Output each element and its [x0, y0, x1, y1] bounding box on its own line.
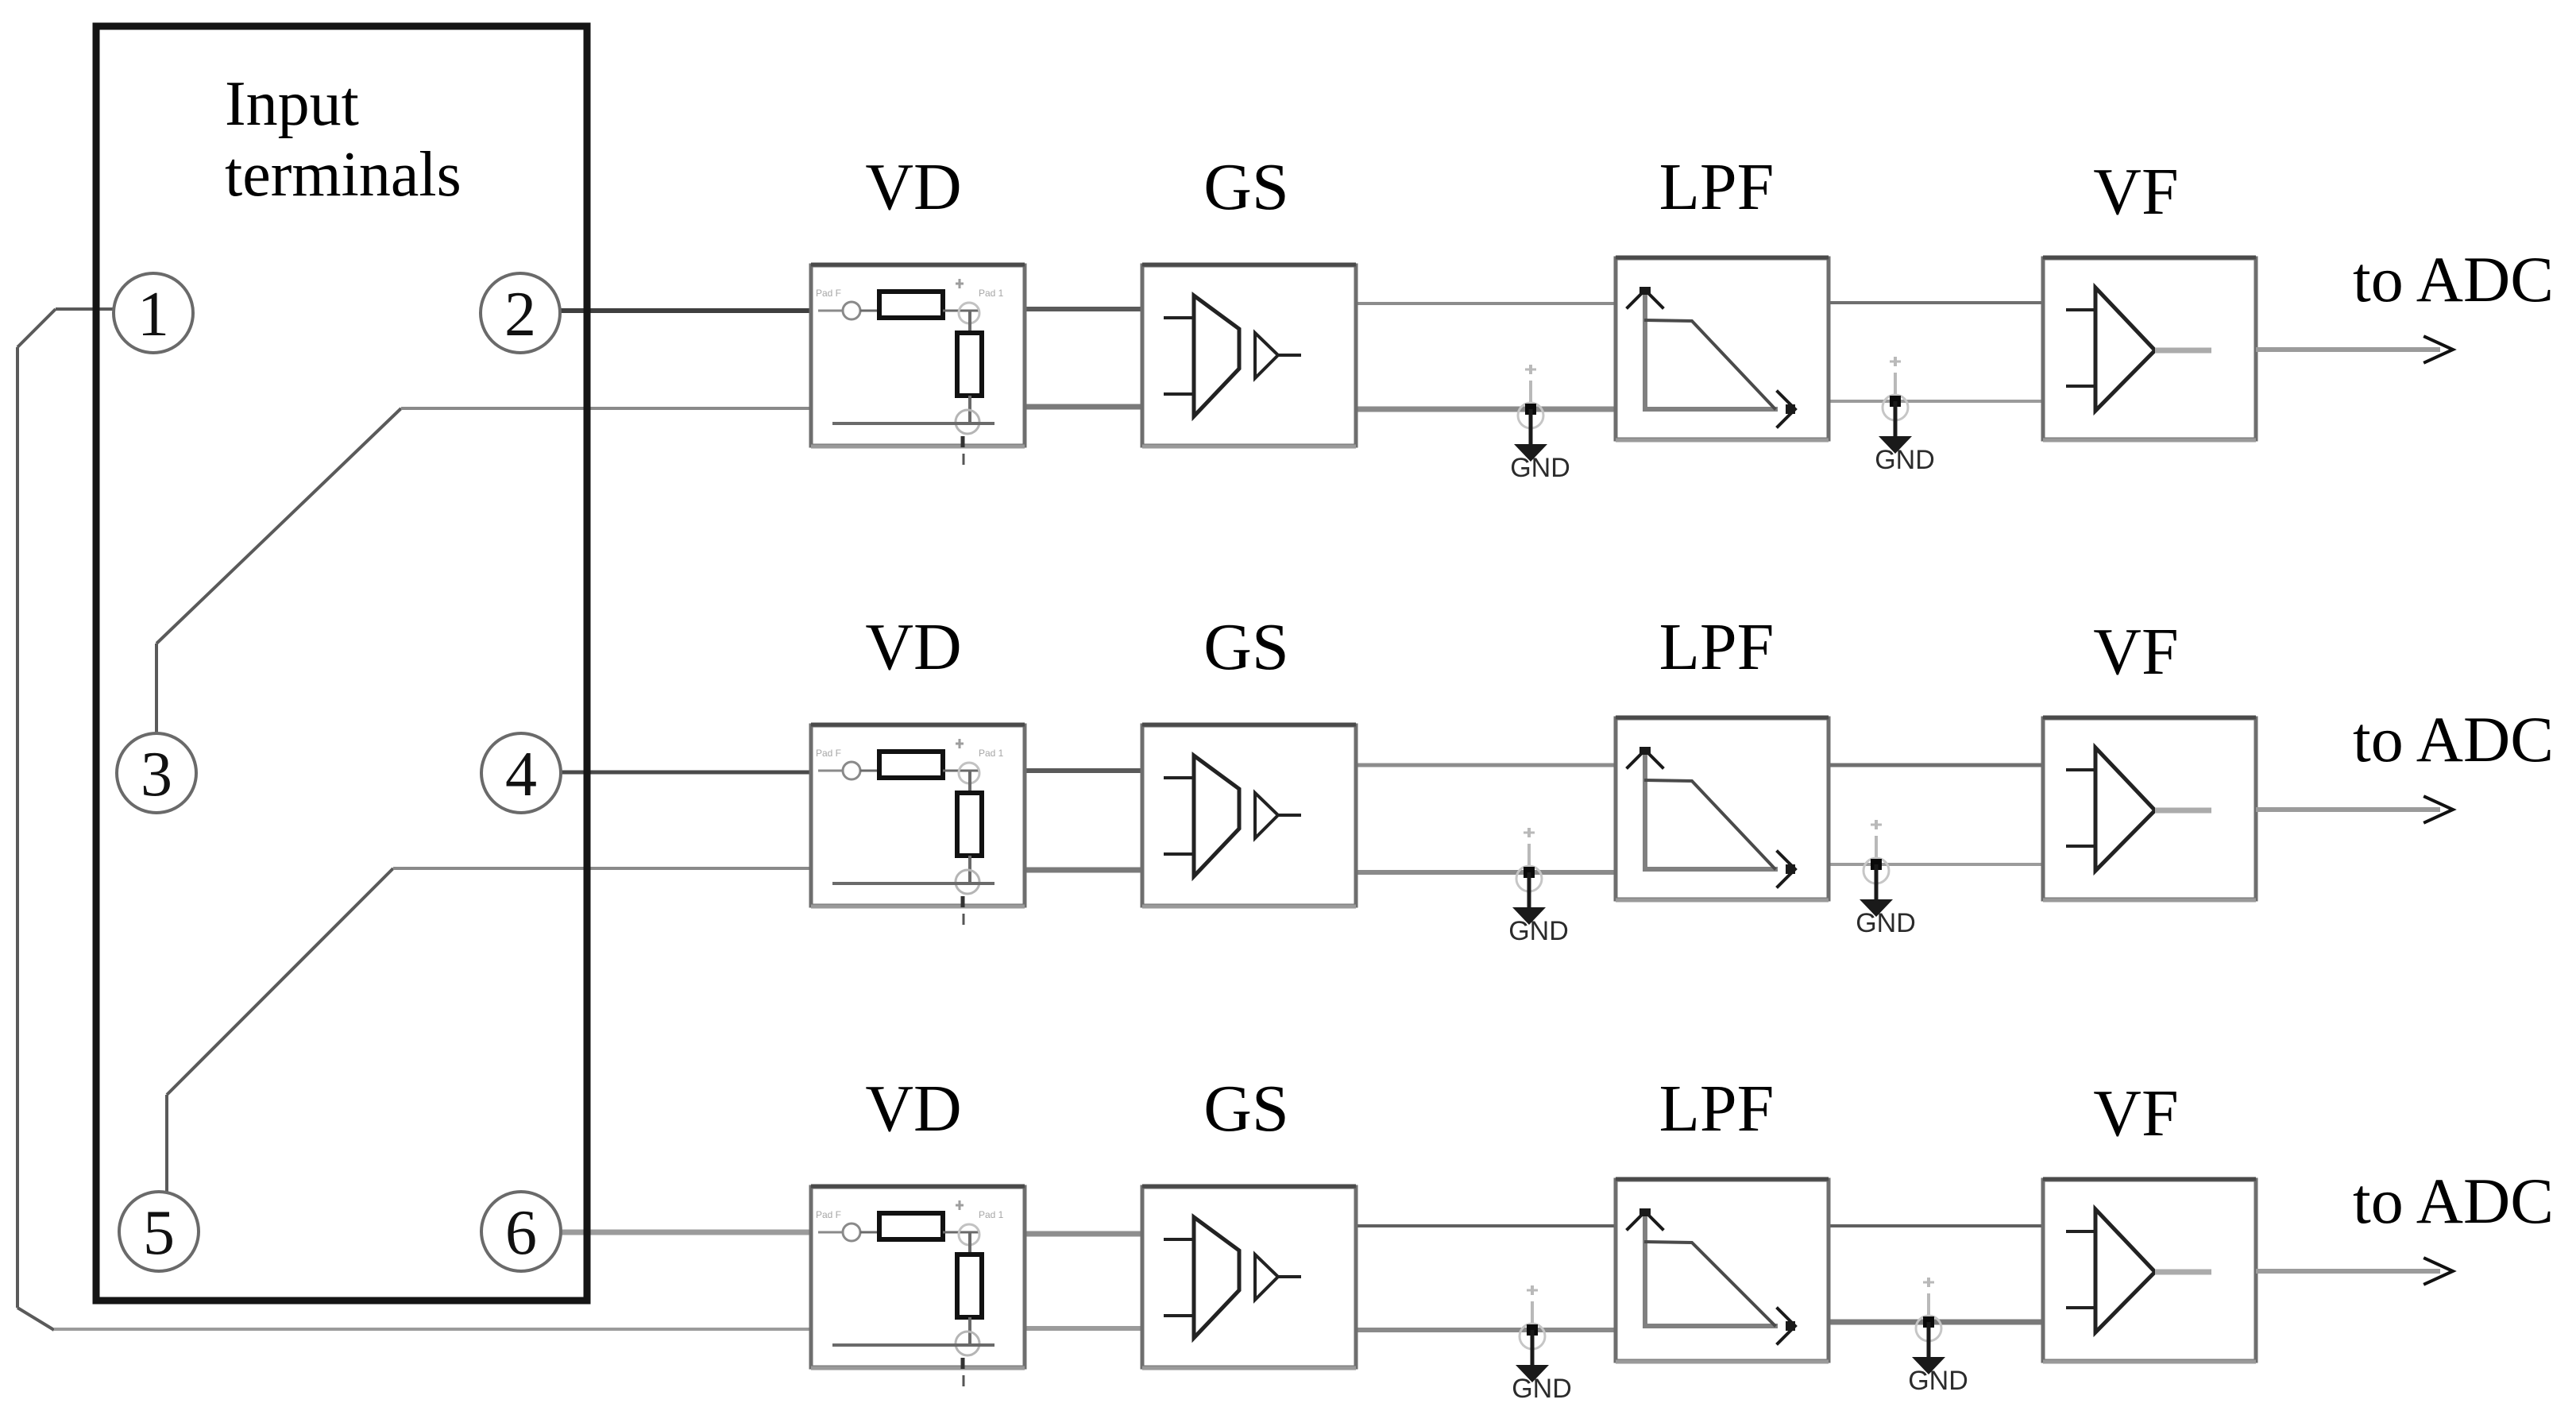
node circle VD1	[959, 303, 979, 323]
power-pin ghost above GND1B (row 1)	[1890, 357, 1901, 395]
amplifier GS2 symbol	[1194, 756, 1239, 876]
op-amp VF2 triangle	[2095, 748, 2155, 871]
VF1 input stub upper	[2066, 308, 2095, 311]
wire VD3 internal ground rail	[832, 1343, 994, 1347]
block VD1 box (voltage divider)	[811, 265, 1025, 446]
wire VD2 to GS2 bottom	[1022, 868, 1145, 873]
LPF2 graph y-axis	[1643, 752, 1647, 870]
wire terminal1 stub left	[56, 307, 115, 311]
label to ADC row 1	[2353, 243, 2554, 315]
svg-text:LPF: LPF	[1659, 150, 1775, 224]
wire terminal5 horizontal to VD2 lower input	[393, 867, 814, 870]
pin label Pad_1 VD3	[979, 1209, 1004, 1220]
GS3 output stub	[1278, 1275, 1301, 1278]
wire VD1 node down	[968, 311, 971, 334]
block VD2 box (voltage divider)	[811, 725, 1025, 907]
wire GS3 to LPF3 top	[1354, 1224, 1618, 1227]
LPF3 graph x-axis	[1643, 1324, 1778, 1328]
wire terminal3 diagonal	[156, 408, 401, 644]
junction dot at GND2B (row 2)	[1871, 859, 1882, 870]
wire terminal3 horizontal to VD1 lower input	[401, 407, 814, 410]
amplifier GS3 symbol	[1194, 1217, 1239, 1338]
pad circle input VD1	[843, 302, 860, 319]
wire VD2 to GS2 top	[1022, 768, 1145, 773]
pin marks below pad VD2	[963, 896, 964, 925]
wire VF3 output to ADC	[2256, 1269, 2440, 1274]
svg-text:LPF: LPF	[1659, 610, 1775, 684]
wire GS2 to LPF2 top	[1354, 763, 1618, 767]
wire terminal6 to VD3 top	[559, 1230, 813, 1235]
block LPF1 box (low-pass filter)	[1616, 257, 1829, 440]
svg-text:GND: GND	[1510, 453, 1570, 483]
terminal 5 (circled pin 5)	[119, 1192, 199, 1271]
label VD row 2	[865, 610, 961, 684]
svg-text:VD: VD	[865, 150, 961, 224]
junction dot at GND1B (row 1)	[1890, 396, 1901, 407]
ground symbol GND3A (row 3)	[1516, 1330, 1549, 1382]
op-amp VF3 triangle	[2095, 1209, 2155, 1332]
svg-text:GS: GS	[1203, 610, 1288, 684]
pad circle ground VD3	[956, 1332, 979, 1355]
VF2 output line	[2155, 808, 2211, 814]
wire LPF1 to VF1 top	[1826, 301, 2045, 304]
svg-text:1: 1	[137, 280, 169, 350]
resistor R3b (shunt)	[957, 1254, 982, 1317]
GS2 output stub	[1278, 814, 1301, 817]
svg-text:Pad F: Pad F	[816, 748, 841, 759]
label to ADC row 2	[2353, 703, 2554, 775]
arrowhead to ADC row 3	[2425, 1258, 2453, 1284]
block GS2 box (gain stage)	[1142, 725, 1356, 907]
wire terminal2 to VD1 top	[558, 308, 813, 313]
svg-text:VF: VF	[2093, 1077, 2178, 1150]
wire VD3 resistor to node	[943, 1231, 979, 1234]
wire VD1 internal input	[818, 310, 879, 312]
VF1 output line	[2155, 348, 2211, 354]
pin marks below pad VD3	[963, 1358, 964, 1386]
label VD row 1	[865, 150, 961, 224]
svg-text:2: 2	[504, 280, 536, 350]
label to ADC row 3	[2353, 1165, 2554, 1237]
svg-text:GND: GND	[1508, 916, 1569, 946]
VF3 output line	[2155, 1270, 2211, 1275]
wire outer-loop corner top diagonal	[17, 309, 56, 347]
GS1 input stub lower	[1164, 392, 1194, 396]
label LPF row 1	[1659, 150, 1775, 224]
LPF3 response curve	[1646, 1242, 1775, 1325]
terminal 2 (circled pin 2)	[481, 273, 560, 353]
power-pin ghost above GND3A (row 3)	[1527, 1285, 1538, 1324]
pin label Pad_F VD1	[816, 288, 841, 299]
wire VD2 node down	[968, 771, 971, 794]
pin label Pad_F VD2	[816, 748, 841, 759]
label GS row 3	[1203, 1072, 1288, 1146]
wire VD1 to GS1 bottom	[1022, 404, 1145, 410]
pad circle at GND1B (row 1)	[1883, 395, 1908, 420]
label GND at GND1A (row 1)	[1510, 453, 1570, 483]
label LPF row 2	[1659, 610, 1775, 684]
label VD row 3	[865, 1072, 961, 1146]
resistor R1b (shunt)	[957, 333, 982, 396]
wire VD2 internal ground rail	[832, 882, 994, 885]
buffer GS2 small triangle	[1255, 793, 1278, 838]
wire VD3 node down	[968, 1232, 971, 1256]
wire VF2 output to ADC	[2256, 807, 2440, 812]
wire LPF2 to GND2B to VF2 bottom	[1826, 863, 2045, 866]
label VF row 3	[2093, 1077, 2178, 1150]
LPF2 response curve	[1646, 780, 1775, 868]
svg-text:Pad F: Pad F	[816, 288, 841, 299]
pad circle input VD3	[843, 1224, 860, 1241]
svg-text:VF: VF	[2093, 615, 2178, 689]
VF2 input stub lower	[2066, 845, 2095, 848]
svg-text:LPF: LPF	[1659, 1072, 1775, 1146]
wire VD3 to GS3 top	[1022, 1231, 1145, 1237]
wire terminal3 vertical riser	[155, 644, 158, 733]
pad circle at GND2A (row 2)	[1516, 866, 1542, 891]
wire GS1 to LPF1 top	[1354, 302, 1618, 305]
LPF3 graph y-axis	[1643, 1213, 1647, 1327]
svg-text:6: 6	[505, 1198, 537, 1268]
op-amp VF1 triangle	[2095, 288, 2155, 411]
svg-text:to ADC: to ADC	[2353, 703, 2554, 775]
LPF1 y-axis arrowhead	[1628, 287, 1663, 307]
power-pin ghost above GND3B (row 3)	[1923, 1278, 1934, 1316]
junction dot at GND3B (row 3)	[1923, 1316, 1934, 1328]
terminal 3 (circled pin 3)	[117, 733, 196, 813]
wire GS2 to GND2A to LPF2 bottom	[1354, 870, 1618, 875]
wire VD3 shunt down	[968, 1317, 971, 1343]
block GS3 box (gain stage)	[1142, 1186, 1356, 1368]
svg-text:GS: GS	[1203, 150, 1288, 224]
resistor R2a (series)	[879, 752, 943, 778]
pin marks above node VD3	[956, 1200, 964, 1210]
svg-text:5: 5	[143, 1198, 175, 1268]
GS1 output stub	[1278, 354, 1301, 357]
LPF2 graph x-axis	[1643, 867, 1778, 872]
amplifier GS1 symbol	[1194, 296, 1239, 416]
ground symbol GND2B (row 2)	[1860, 864, 1893, 917]
wire outer-loop bottom horizontal to VD3 lower input	[54, 1328, 814, 1331]
label GS row 2	[1203, 610, 1288, 684]
node circle VD2	[959, 763, 979, 783]
block VF1 box (voltage follower)	[2043, 257, 2256, 440]
node circle VD3	[959, 1224, 979, 1245]
svg-text:GND: GND	[1908, 1366, 1968, 1396]
LPF2 x-axis arrowhead	[1778, 852, 1795, 887]
block VF3 box (voltage follower)	[2043, 1179, 2256, 1362]
LPF2 y-axis arrowhead	[1628, 747, 1663, 767]
wire VD2 internal input	[818, 770, 879, 772]
svg-text:Pad 1: Pad 1	[979, 748, 1004, 759]
svg-text:GND: GND	[1875, 445, 1935, 475]
power-pin ghost above GND2A (row 2)	[1524, 828, 1535, 866]
wire VD2 resistor to node	[943, 770, 979, 772]
block LPF2 box (low-pass filter)	[1616, 717, 1829, 900]
VF3 input stub upper	[2066, 1230, 2095, 1233]
buffer GS1 small triangle	[1255, 333, 1278, 378]
block VD3 box (voltage divider)	[811, 1186, 1025, 1368]
svg-text:GND: GND	[1512, 1374, 1572, 1404]
svg-text:GS: GS	[1203, 1072, 1288, 1146]
GS3 input stub lower	[1164, 1314, 1194, 1317]
buffer GS3 small triangle	[1255, 1254, 1278, 1300]
wire LPF2 to VF2 top	[1826, 763, 2045, 767]
wire LPF3 to GND3B to VF3 bottom	[1826, 1320, 2045, 1325]
terminal 6 (circled pin 6)	[481, 1192, 561, 1271]
pad circle at GND3B (row 3)	[1916, 1316, 1941, 1341]
label VF row 1	[2093, 155, 2178, 229]
wire terminal5 diagonal	[167, 868, 393, 1095]
svg-text:terminals: terminals	[225, 140, 462, 210]
wire VD3 to GS3 bottom	[1022, 1326, 1145, 1331]
wire VF1 output to ADC	[2256, 347, 2440, 352]
svg-text:Pad 1: Pad 1	[979, 288, 1004, 299]
resistor R1a (series)	[879, 292, 943, 318]
wire VD2 shunt down	[968, 856, 971, 882]
wire LPF3 to VF3 top	[1826, 1224, 2045, 1227]
block VF2 box (voltage follower)	[2043, 717, 2256, 900]
terminal 1 (circled pin 1)	[114, 273, 193, 353]
VF3 input stub lower	[2066, 1306, 2095, 1309]
svg-text:VF: VF	[2093, 155, 2178, 229]
LPF1 graph x-axis	[1643, 407, 1778, 412]
power-pin ghost above GND1A (row 1)	[1525, 365, 1536, 403]
wire VD1 internal ground rail	[832, 422, 994, 425]
power-pin ghost above GND2B (row 2)	[1871, 820, 1882, 858]
pad circle at GND3A (row 3)	[1520, 1324, 1545, 1349]
arrowhead to ADC row 1	[2425, 337, 2453, 362]
svg-text:VD: VD	[865, 610, 961, 684]
LPF3 x-axis arrowhead	[1778, 1309, 1795, 1343]
wire terminal4 to VD2 top	[559, 771, 813, 775]
pin label Pad_1 VD1	[979, 288, 1004, 299]
pad circle at GND1A (row 1)	[1518, 403, 1543, 428]
wire terminal5 vertical riser	[165, 1095, 168, 1192]
pin marks below pad VD1	[963, 436, 964, 465]
wire VD1 to GS1 top	[1022, 307, 1145, 311]
svg-text:Input: Input	[225, 69, 359, 139]
GS3 input stub upper	[1164, 1238, 1194, 1241]
svg-text:4: 4	[505, 740, 537, 810]
GS2 input stub lower	[1164, 852, 1194, 856]
wire outer-loop corner bottom diagonal	[17, 1308, 54, 1330]
block GS1 box (gain stage)	[1142, 265, 1356, 446]
wire LPF1 to GND1B to VF1 bottom	[1826, 400, 2045, 403]
svg-text:3: 3	[141, 740, 172, 810]
pin marks above node VD1	[956, 279, 964, 288]
pin label Pad_1 VD2	[979, 748, 1004, 759]
label Input terminals	[225, 69, 462, 210]
label GND at GND3B (row 3)	[1908, 1366, 1968, 1396]
resistor R2b (shunt)	[957, 793, 982, 856]
ground symbol GND3B (row 3)	[1912, 1322, 1945, 1374]
junction dot at GND3A (row 3)	[1527, 1324, 1538, 1336]
terminal 4 (circled pin 4)	[481, 733, 561, 813]
label GND at GND2B (row 2)	[1856, 908, 1916, 938]
resistor R3a (series)	[879, 1213, 943, 1239]
wire outer-loop left vertical	[16, 347, 19, 1308]
wire VD1 shunt down	[968, 396, 971, 422]
LPF1 response curve	[1646, 320, 1775, 408]
GS2 input stub upper	[1164, 776, 1194, 779]
wire VD1 resistor to node	[943, 310, 979, 312]
GS1 input stub upper	[1164, 316, 1194, 319]
label GND at GND2A (row 2)	[1508, 916, 1569, 946]
label GS row 1	[1203, 150, 1288, 224]
block LPF3 box (low-pass filter)	[1616, 1179, 1829, 1362]
pad circle ground VD2	[956, 870, 979, 894]
svg-text:Pad F: Pad F	[816, 1209, 841, 1220]
pad circle input VD2	[843, 762, 860, 779]
wire GS3 to GND3A to LPF3 bottom	[1354, 1328, 1618, 1332]
svg-text:to ADC: to ADC	[2353, 1165, 2554, 1237]
junction dot at GND1A (row 1)	[1525, 404, 1536, 415]
pad circle ground VD1	[956, 410, 979, 434]
svg-text:Pad 1: Pad 1	[979, 1209, 1004, 1220]
pad circle at GND2B (row 2)	[1863, 858, 1889, 883]
svg-text:GND: GND	[1856, 908, 1916, 938]
svg-text:VD: VD	[865, 1072, 961, 1146]
wire GS1 to GND1A to LPF1 bottom	[1354, 407, 1618, 412]
ground symbol GND1B (row 1)	[1879, 401, 1912, 454]
LPF1 x-axis arrowhead	[1778, 392, 1795, 427]
LPF1 graph y-axis	[1643, 292, 1647, 410]
input terminals box	[96, 26, 587, 1301]
arrowhead to ADC row 2	[2425, 797, 2453, 822]
wire VD3 internal input	[818, 1231, 879, 1234]
VF2 input stub upper	[2066, 768, 2095, 771]
label GND at GND1B (row 1)	[1875, 445, 1935, 475]
pin label Pad_F VD3	[816, 1209, 841, 1220]
label GND at GND3A (row 3)	[1512, 1374, 1572, 1404]
junction dot at GND2A (row 2)	[1524, 867, 1535, 878]
VF1 input stub lower	[2066, 385, 2095, 388]
pin marks above node VD2	[956, 739, 964, 748]
ground symbol GND2A (row 2)	[1512, 872, 1546, 925]
ground symbol GND1A (row 1)	[1514, 409, 1547, 462]
LPF3 y-axis arrowhead	[1628, 1208, 1663, 1229]
label LPF row 3	[1659, 1072, 1775, 1146]
svg-text:to ADC: to ADC	[2353, 243, 2554, 315]
label VF row 2	[2093, 615, 2178, 689]
